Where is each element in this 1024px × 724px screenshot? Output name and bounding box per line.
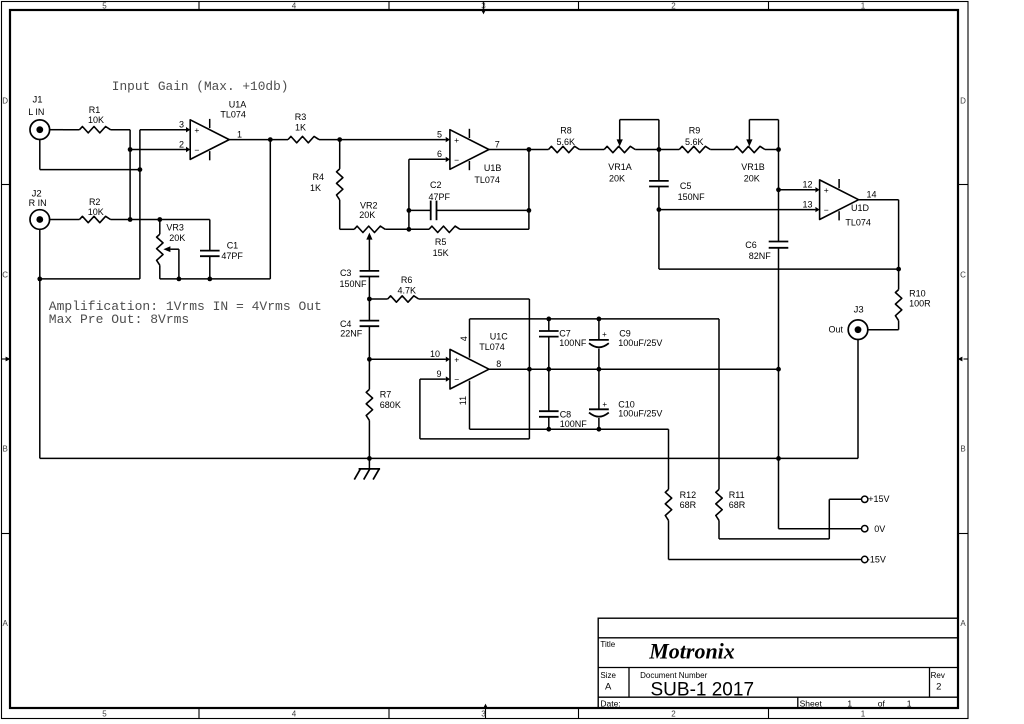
svg-text:R7: R7 — [380, 389, 392, 399]
svg-text:−: − — [454, 155, 459, 165]
svg-text:+: + — [454, 355, 459, 365]
svg-text:3: 3 — [481, 710, 486, 719]
svg-text:1K: 1K — [310, 183, 321, 193]
svg-text:100R: 100R — [909, 298, 931, 308]
svg-text:Input Gain (Max. +10db): Input Gain (Max. +10db) — [112, 79, 289, 94]
svg-text:VR1A: VR1A — [608, 162, 632, 172]
svg-text:5.6K: 5.6K — [556, 137, 575, 147]
svg-text:20K: 20K — [359, 210, 375, 220]
svg-text:6: 6 — [437, 149, 442, 159]
svg-text:J1: J1 — [32, 94, 42, 105]
svg-text:22NF: 22NF — [340, 329, 363, 339]
svg-text:R10: R10 — [909, 289, 926, 299]
svg-text:B: B — [960, 445, 965, 454]
svg-text:4.7K: 4.7K — [397, 286, 416, 296]
svg-text:R12: R12 — [680, 490, 697, 500]
svg-text:R11: R11 — [729, 490, 745, 500]
svg-text:R9: R9 — [689, 125, 701, 135]
svg-text:R8: R8 — [560, 125, 572, 135]
svg-text:TL074: TL074 — [474, 175, 500, 185]
svg-text:8: 8 — [496, 359, 501, 369]
svg-text:3: 3 — [179, 120, 184, 130]
svg-text:-15V: -15V — [867, 555, 886, 565]
svg-text:4: 4 — [459, 336, 469, 341]
svg-text:A: A — [3, 619, 9, 628]
svg-text:9: 9 — [436, 369, 441, 379]
svg-text:−: − — [824, 205, 829, 215]
svg-text:2: 2 — [671, 1, 676, 10]
svg-text:C5: C5 — [680, 181, 692, 191]
svg-text:D: D — [2, 97, 8, 106]
svg-text:1K: 1K — [295, 123, 306, 133]
svg-text:Size: Size — [600, 671, 616, 680]
svg-text:C7: C7 — [559, 328, 571, 338]
svg-text:VR3: VR3 — [166, 223, 184, 233]
svg-text:5: 5 — [102, 1, 107, 10]
svg-text:+: + — [454, 135, 459, 145]
svg-text:100NF: 100NF — [559, 338, 587, 348]
svg-text:2: 2 — [936, 681, 941, 692]
svg-text:15K: 15K — [433, 248, 449, 258]
svg-text:R4: R4 — [312, 172, 324, 182]
svg-text:3: 3 — [481, 1, 486, 10]
svg-text:47PF: 47PF — [428, 192, 450, 202]
svg-text:Title: Title — [600, 640, 615, 649]
svg-text:1: 1 — [861, 1, 866, 10]
svg-text:100uF/25V: 100uF/25V — [618, 338, 662, 348]
svg-text:2: 2 — [179, 139, 184, 149]
svg-text:0V: 0V — [874, 524, 885, 534]
svg-text:Max Pre Out: 8Vrms: Max Pre Out: 8Vrms — [49, 312, 189, 327]
svg-text:5.6K: 5.6K — [685, 137, 704, 147]
svg-text:+15V: +15V — [868, 494, 889, 504]
svg-text:680K: 680K — [380, 400, 401, 410]
svg-text:C: C — [2, 271, 8, 280]
svg-text:Motronix: Motronix — [648, 639, 735, 664]
svg-text:1: 1 — [847, 699, 852, 709]
svg-text:5: 5 — [102, 710, 107, 719]
svg-text:J3: J3 — [854, 305, 864, 316]
svg-text:R IN: R IN — [29, 198, 47, 208]
svg-text:Out: Out — [828, 324, 843, 334]
svg-text:C1: C1 — [227, 240, 239, 250]
svg-text:A: A — [960, 619, 966, 628]
svg-text:68R: 68R — [729, 500, 746, 510]
svg-text:10K: 10K — [88, 115, 104, 125]
svg-text:14: 14 — [867, 190, 877, 200]
svg-text:+: + — [602, 330, 607, 339]
svg-text:47PF: 47PF — [221, 251, 243, 261]
svg-text:C2: C2 — [430, 180, 442, 190]
svg-text:150NF: 150NF — [678, 192, 706, 202]
svg-text:100NF: 100NF — [560, 419, 588, 429]
svg-text:5: 5 — [437, 129, 442, 139]
svg-text:U1A: U1A — [229, 100, 247, 110]
svg-text:L IN: L IN — [28, 107, 44, 117]
svg-text:2: 2 — [671, 710, 676, 719]
svg-text:−: − — [194, 145, 199, 155]
svg-text:68R: 68R — [680, 500, 697, 510]
svg-text:R2: R2 — [89, 197, 101, 207]
svg-text:10K: 10K — [88, 207, 104, 217]
svg-text:12: 12 — [802, 180, 812, 190]
svg-text:+: + — [824, 185, 829, 195]
svg-text:10: 10 — [430, 349, 440, 359]
svg-text:R3: R3 — [295, 112, 307, 122]
svg-text:1: 1 — [861, 710, 866, 719]
svg-text:+: + — [602, 400, 607, 409]
svg-text:4: 4 — [292, 710, 297, 719]
svg-text:of: of — [878, 699, 886, 709]
svg-text:1: 1 — [907, 699, 912, 709]
svg-text:20K: 20K — [609, 174, 625, 184]
svg-text:D: D — [960, 97, 966, 106]
svg-text:R5: R5 — [435, 237, 447, 247]
svg-text:R1: R1 — [89, 105, 101, 115]
svg-text:SUB-1 2017: SUB-1 2017 — [651, 679, 755, 700]
svg-text:4: 4 — [292, 1, 297, 10]
svg-text:Date:: Date: — [600, 699, 620, 709]
svg-text:−: − — [454, 375, 459, 385]
svg-text:TL074: TL074 — [220, 109, 246, 119]
svg-text:VR1B: VR1B — [741, 162, 765, 172]
svg-text:13: 13 — [802, 199, 812, 209]
svg-text:Rev: Rev — [931, 671, 945, 680]
svg-text:B: B — [3, 445, 8, 454]
svg-text:1: 1 — [237, 129, 242, 139]
svg-text:TL074: TL074 — [845, 217, 871, 227]
svg-text:100uF/25V: 100uF/25V — [618, 409, 662, 419]
svg-text:C: C — [960, 271, 966, 280]
svg-text:11: 11 — [458, 396, 468, 405]
svg-text:+: + — [194, 125, 199, 135]
svg-text:20K: 20K — [744, 174, 760, 184]
svg-text:TL074: TL074 — [479, 342, 505, 352]
svg-text:C9: C9 — [619, 328, 631, 338]
svg-text:20K: 20K — [169, 233, 185, 243]
svg-text:Sheet: Sheet — [800, 699, 823, 709]
svg-text:150NF: 150NF — [339, 279, 367, 289]
svg-text:VR2: VR2 — [360, 201, 378, 211]
svg-text:U1D: U1D — [851, 203, 870, 213]
svg-text:R6: R6 — [401, 275, 413, 285]
svg-text:C4: C4 — [340, 319, 352, 329]
svg-text:A: A — [605, 681, 612, 692]
svg-text:C6: C6 — [745, 240, 757, 250]
svg-text:C3: C3 — [340, 268, 352, 278]
svg-text:7: 7 — [495, 139, 500, 149]
svg-text:U1C: U1C — [490, 332, 509, 342]
svg-text:82NF: 82NF — [749, 251, 772, 261]
svg-text:U1B: U1B — [484, 163, 502, 173]
